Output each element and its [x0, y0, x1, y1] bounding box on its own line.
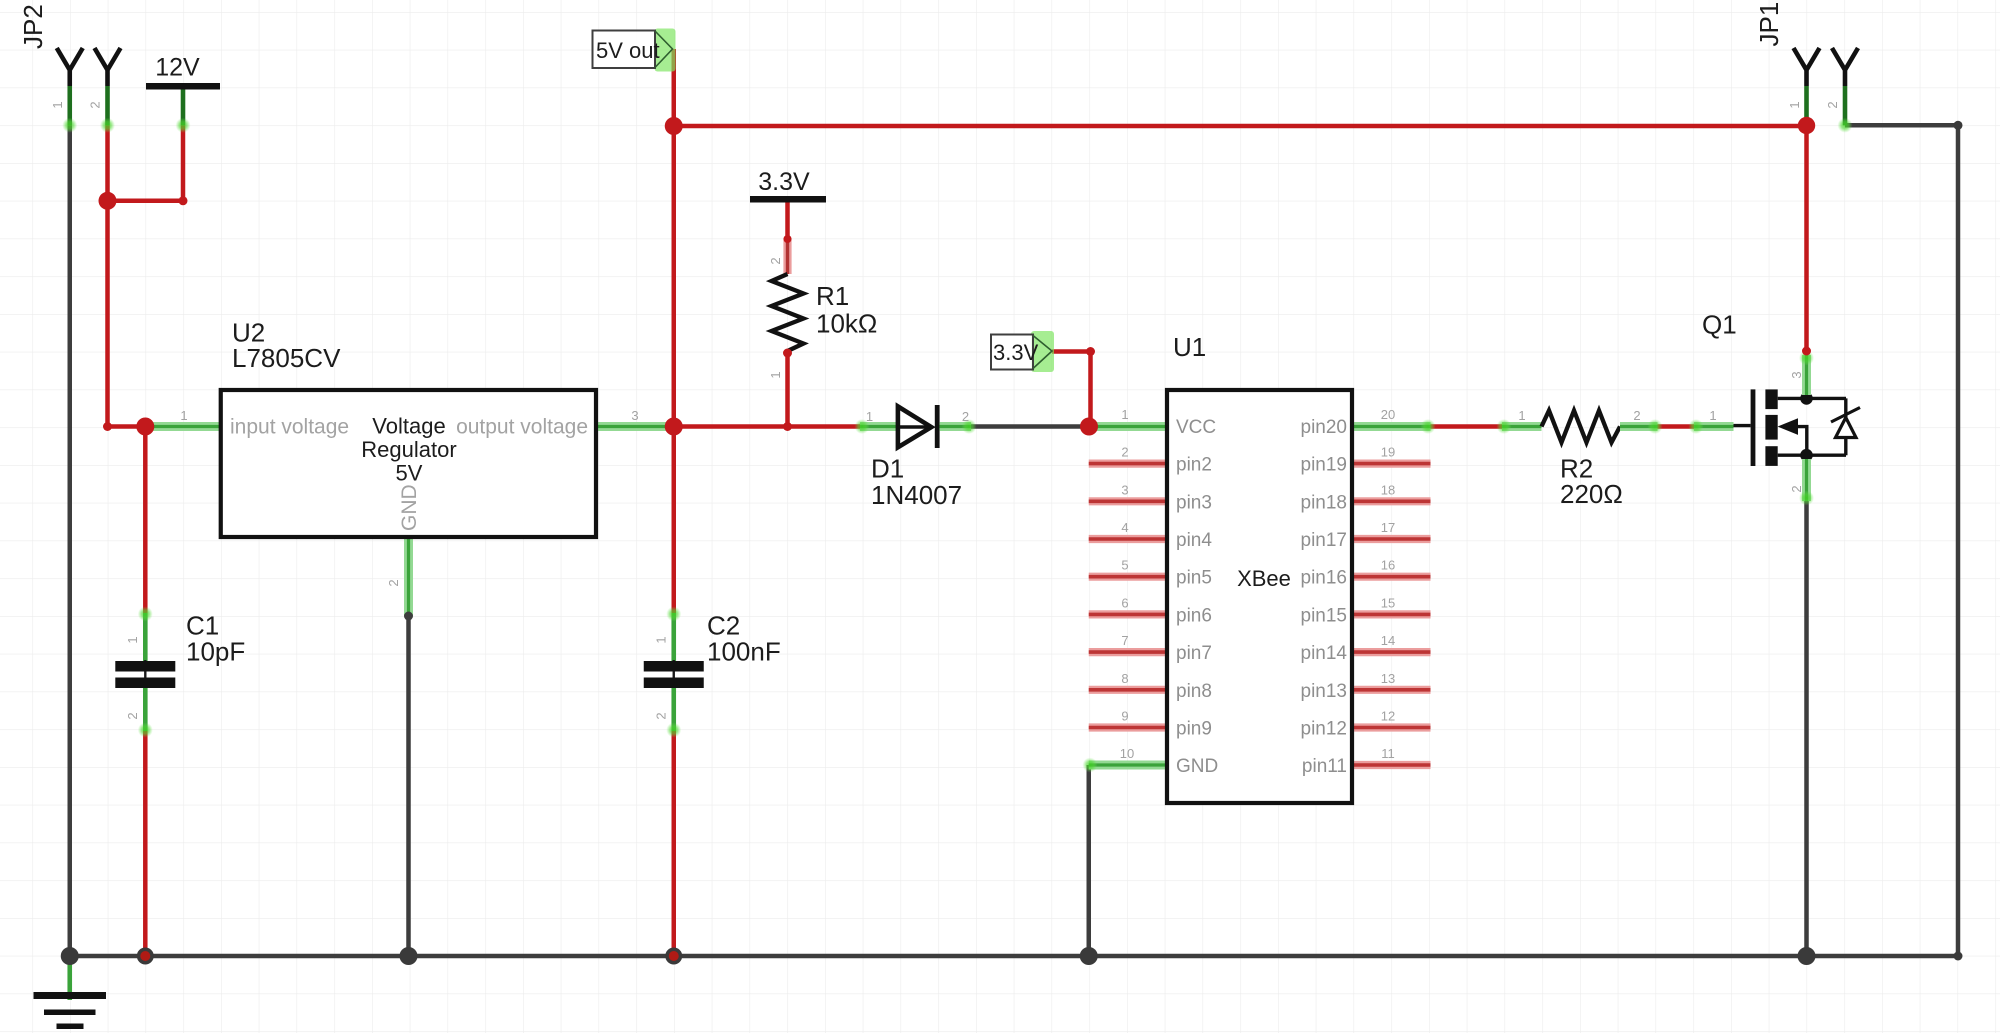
svg-text:pin4: pin4	[1176, 530, 1212, 551]
svg-text:15: 15	[1381, 595, 1395, 610]
svg-text:2: 2	[1121, 445, 1128, 460]
svg-text:3: 3	[1789, 371, 1804, 378]
node Q1 source dot	[1800, 449, 1813, 462]
pin R2 pin1 leg	[1502, 422, 1542, 431]
svg-text:pin11: pin11	[1302, 756, 1347, 777]
resistor R1 zigzag	[772, 274, 804, 351]
svg-text:3: 3	[631, 408, 638, 423]
svg-text:1: 1	[125, 636, 140, 643]
svg-text:pin2: pin2	[1176, 455, 1212, 476]
wire R1 pin1 to rail	[785, 351, 790, 427]
node Q1 drain wire end	[1802, 347, 1811, 356]
node R1 top pin end	[784, 235, 792, 243]
node junction U2 input	[136, 418, 154, 436]
transistor Q1 gate bar	[1751, 389, 1756, 466]
transistor Q1 channel stubs	[1765, 389, 1777, 409]
svg-text:2: 2	[1825, 101, 1840, 108]
transistor Q1 arrow	[1778, 418, 1798, 435]
node R1 bottom corner	[783, 422, 792, 431]
svg-text:11: 11	[1381, 746, 1395, 761]
transistor Q1 gate lead	[1734, 424, 1751, 427]
pin U1 pin8 leg	[1089, 686, 1167, 694]
svg-text:pin20: pin20	[1301, 417, 1348, 438]
node bottom rail right corner	[1954, 952, 1963, 961]
pin U2 GND leg	[404, 537, 413, 616]
svg-text:pin3: pin3	[1176, 492, 1212, 513]
svg-text:8: 8	[1121, 671, 1128, 686]
node JP2 pin2 rail corner	[103, 422, 112, 431]
pin U1 GND leg	[1089, 761, 1167, 770]
wire U1 pin20 to R2	[1431, 424, 1503, 429]
svg-text:3.3V: 3.3V	[993, 340, 1039, 365]
svg-text:16: 16	[1381, 558, 1395, 573]
node junction JP1 pin1	[1798, 117, 1815, 134]
pin U1 pin7 leg	[1089, 648, 1167, 656]
svg-text:4: 4	[1121, 520, 1128, 535]
svg-text:pin7: pin7	[1176, 643, 1212, 664]
svg-text:Q1: Q1	[1702, 310, 1737, 340]
pin JP2 pin2 leg	[105, 86, 110, 125]
svg-text:220Ω: 220Ω	[1560, 479, 1623, 509]
node bottom rail left corner	[61, 947, 79, 965]
svg-text:1: 1	[654, 636, 669, 643]
svg-text:1: 1	[768, 371, 783, 378]
node U2 GND wire end	[404, 612, 413, 621]
wire input junction down to C1	[143, 427, 148, 614]
pin JP1 pin1 leg	[1804, 86, 1809, 125]
node junction 5V out top	[665, 117, 683, 135]
svg-text:Voltage: Voltage	[372, 414, 445, 439]
wire U1 GND down	[1087, 765, 1092, 956]
pin U1 VCC leg	[1089, 422, 1167, 431]
node Q1 drain dot	[1800, 392, 1813, 405]
svg-text:19: 19	[1381, 445, 1395, 460]
wire 3.3V flag to U1 VCC	[1052, 352, 1091, 427]
svg-text:D1: D1	[871, 454, 904, 484]
svg-text:pin9: pin9	[1176, 719, 1212, 740]
svg-text:5: 5	[1121, 558, 1128, 573]
svg-text:6: 6	[1121, 595, 1128, 610]
svg-text:2: 2	[962, 409, 969, 424]
wire 3.3V power to R1	[785, 202, 790, 240]
transistor Q1 source line	[1778, 454, 1846, 457]
svg-text:18: 18	[1381, 482, 1395, 497]
node U2 GND at bottom rail	[400, 947, 418, 965]
svg-text:10pF: 10pF	[186, 636, 245, 666]
wire JP2 pin2 down to input rail	[108, 125, 146, 426]
pin JP1 pin2 leg	[1843, 86, 1848, 125]
svg-text:pin12: pin12	[1301, 719, 1348, 740]
capacitor C1 plates	[144, 660, 146, 690]
svg-text:1: 1	[1709, 408, 1716, 423]
transistor Q1 drain line	[1778, 397, 1846, 400]
pin U2 pin3 leg	[596, 422, 674, 431]
node junction JP2/12V	[99, 192, 117, 210]
svg-text:12: 12	[1381, 709, 1395, 724]
IC U1 body box	[1167, 390, 1352, 803]
svg-text:L7805CV: L7805CV	[232, 343, 341, 373]
wire bottom ground rail	[70, 954, 1958, 959]
svg-text:5V out: 5V out	[596, 38, 660, 63]
net label 5V out flag	[655, 29, 676, 72]
wire 5V out flag down	[672, 49, 677, 126]
svg-text:7: 7	[1121, 633, 1128, 648]
pin U1 pin4 leg	[1089, 535, 1167, 543]
pin U1 pin6 leg	[1089, 610, 1167, 618]
svg-text:2: 2	[654, 712, 669, 719]
wire JP2 pin1 to bottom rail	[68, 125, 73, 956]
pin U1 pin3 leg	[1089, 497, 1167, 505]
svg-text:R1: R1	[816, 281, 849, 311]
node U1 GND at bottom rail	[1080, 947, 1098, 965]
capacitor C2 plates	[673, 660, 675, 690]
svg-text:9: 9	[1121, 709, 1128, 724]
svg-text:pin8: pin8	[1176, 681, 1212, 702]
connector JP2 pin1 antenna	[57, 48, 83, 86]
pin U1 pin5 leg	[1089, 573, 1167, 581]
svg-text:100nF: 100nF	[707, 636, 781, 666]
connector JP1 pin1 antenna	[1794, 48, 1820, 86]
resistor R2 zigzag	[1542, 411, 1621, 443]
node JP1 pin2 corner	[1954, 121, 1963, 130]
wire R2 to Q1 gate	[1658, 424, 1695, 429]
node Q1 source at bottom rail	[1798, 947, 1816, 965]
pin C2 pin2 leg	[671, 688, 676, 731]
svg-text:U1: U1	[1173, 332, 1206, 362]
svg-text:JP1: JP1	[1754, 2, 1784, 47]
svg-text:VCC: VCC	[1176, 417, 1216, 438]
svg-text:pin13: pin13	[1301, 681, 1348, 702]
svg-text:2: 2	[88, 101, 103, 108]
node R1 bottom pin end	[783, 349, 792, 358]
pin D1 pin1 leg	[860, 422, 898, 431]
pin R1 pin2 leg	[783, 238, 791, 274]
pin U1 pin17 leg	[1352, 535, 1431, 543]
svg-text:2: 2	[386, 579, 401, 586]
svg-text:output voltage: output voltage	[456, 416, 588, 439]
wire U2 GND down	[406, 616, 411, 956]
svg-text:10: 10	[1120, 746, 1134, 761]
svg-text:pin17: pin17	[1301, 530, 1348, 551]
svg-text:pin14: pin14	[1301, 643, 1348, 664]
svg-text:pin6: pin6	[1176, 605, 1212, 626]
pin C1 pin1 leg	[143, 613, 148, 661]
wire D1 pin2 to U1 VCC junction	[971, 424, 1089, 429]
connector JP1 pin2 antenna	[1832, 48, 1858, 86]
wire Q1 source down	[1804, 501, 1809, 956]
node 12V corner	[179, 196, 188, 205]
wire C2 pin2 to bottom rail	[672, 731, 677, 956]
pin D1 pin2 leg	[940, 422, 971, 431]
pin U1 pin15 leg	[1352, 610, 1431, 618]
svg-text:pin15: pin15	[1301, 605, 1348, 626]
svg-text:2: 2	[1633, 408, 1640, 423]
pin U1 pin16 leg	[1352, 573, 1431, 581]
svg-text:1N4007: 1N4007	[871, 480, 962, 510]
svg-text:JP2: JP2	[18, 4, 48, 49]
svg-text:1: 1	[1121, 407, 1128, 422]
svg-text:2: 2	[768, 257, 783, 264]
pin U1 pin9 leg	[1089, 723, 1167, 731]
svg-text:3: 3	[1121, 482, 1128, 497]
svg-text:1: 1	[50, 101, 65, 108]
pin JP2 pin1 leg	[67, 86, 72, 125]
svg-text:input voltage: input voltage	[230, 416, 349, 439]
wire JP1 pin2 right and down	[1845, 125, 1958, 956]
svg-text:pin18: pin18	[1301, 492, 1348, 513]
wire JP1 pin1 down to Q1 drain	[1804, 126, 1809, 351]
pin U1 pin13 leg	[1352, 686, 1431, 694]
node C1 at bottom rail	[137, 948, 154, 965]
node junction 5V rail C2	[665, 418, 683, 436]
svg-text:Regulator: Regulator	[361, 437, 456, 462]
svg-text:GND: GND	[1176, 756, 1218, 777]
svg-text:10kΩ: 10kΩ	[816, 309, 877, 339]
svg-text:pin19: pin19	[1301, 455, 1348, 476]
pin C1 pin2 leg	[143, 688, 148, 731]
svg-text:2: 2	[1789, 485, 1804, 492]
pin U1 pin2 leg	[1089, 460, 1167, 468]
svg-text:3.3V: 3.3V	[758, 168, 810, 196]
pin U1 pin12 leg	[1352, 723, 1431, 731]
pin U2 pin1 leg	[145, 422, 220, 431]
svg-text:13: 13	[1381, 671, 1395, 686]
connector JP2 pin2 antenna	[95, 48, 121, 86]
svg-text:12V: 12V	[155, 54, 200, 82]
pin C2 pin1 leg	[671, 613, 676, 661]
node C2 at bottom rail	[665, 948, 682, 965]
pin Q1 drain leg	[1802, 355, 1811, 395]
net label 3.3V flag	[1031, 331, 1054, 372]
ground symbol	[67, 956, 72, 1000]
svg-text:XBee: XBee	[1237, 566, 1291, 591]
diode D1 triangle	[898, 406, 931, 447]
svg-text:pin5: pin5	[1176, 568, 1212, 589]
pin U1 pin14 leg	[1352, 648, 1431, 656]
svg-text:17: 17	[1381, 520, 1395, 535]
pin U1 pin18 leg	[1352, 497, 1431, 505]
svg-text:1: 1	[1518, 408, 1525, 423]
svg-text:2: 2	[125, 712, 140, 719]
svg-text:pin16: pin16	[1301, 568, 1348, 589]
pin R2 pin2 leg	[1620, 422, 1658, 431]
node junction U1 VCC	[1080, 418, 1098, 436]
pin 12V leg	[181, 90, 186, 126]
node 3.3V flag corner	[1086, 347, 1095, 356]
svg-text:1: 1	[866, 409, 873, 424]
diode D1 cathode bar	[935, 405, 940, 448]
pin U1 pin11 leg	[1352, 761, 1431, 769]
svg-text:GND: GND	[398, 484, 421, 531]
pin Q1 source leg	[1802, 459, 1811, 501]
pin U1 pin20 leg	[1352, 422, 1431, 431]
wire C1 pin2 to bottom rail	[143, 731, 148, 956]
svg-text:14: 14	[1381, 633, 1395, 648]
wire output rail to D1	[674, 424, 860, 429]
wire 12V to JP2 pin2 net	[108, 125, 184, 201]
wire 5V top rail to JP1	[674, 124, 1807, 129]
pin U1 pin19 leg	[1352, 460, 1431, 468]
svg-text:1: 1	[1787, 101, 1802, 108]
svg-text:1: 1	[180, 408, 187, 423]
wire 5V vertical to C2	[672, 126, 677, 613]
svg-text:5V: 5V	[396, 461, 423, 486]
op-amp U2 body box	[221, 390, 596, 537]
transistor Q1 body diode	[1844, 398, 1847, 455]
svg-text:20: 20	[1381, 407, 1395, 422]
pin Q1 gate leg	[1694, 422, 1734, 431]
